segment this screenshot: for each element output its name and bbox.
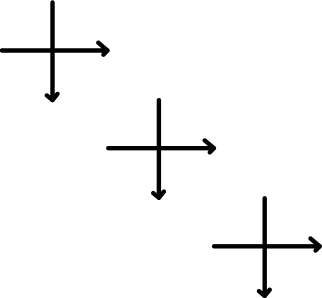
cross 2 right arrowhead [205, 140, 214, 152]
cross 1 vertical shaft [50, 3, 54, 101]
cross 3 down arrowhead [259, 290, 270, 296]
cross 1 right arrowhead [98, 43, 107, 55]
cross 3 (bottom-right axis cross) [214, 198, 320, 296]
cross 2 vertical shaft [157, 100, 161, 198]
cross 1 horizontal shaft [2, 48, 108, 52]
cross 2 (center axis cross) [108, 100, 214, 198]
cross 3 vertical shaft [263, 198, 267, 296]
cross 3 horizontal shaft [214, 244, 320, 248]
cross 2 down arrowhead [153, 192, 164, 198]
cross 1 down arrowhead [47, 94, 58, 100]
cross 2 horizontal shaft [108, 146, 214, 150]
cross 3 right arrowhead [311, 239, 320, 251]
cross 1 (top-left axis cross) [2, 3, 108, 101]
